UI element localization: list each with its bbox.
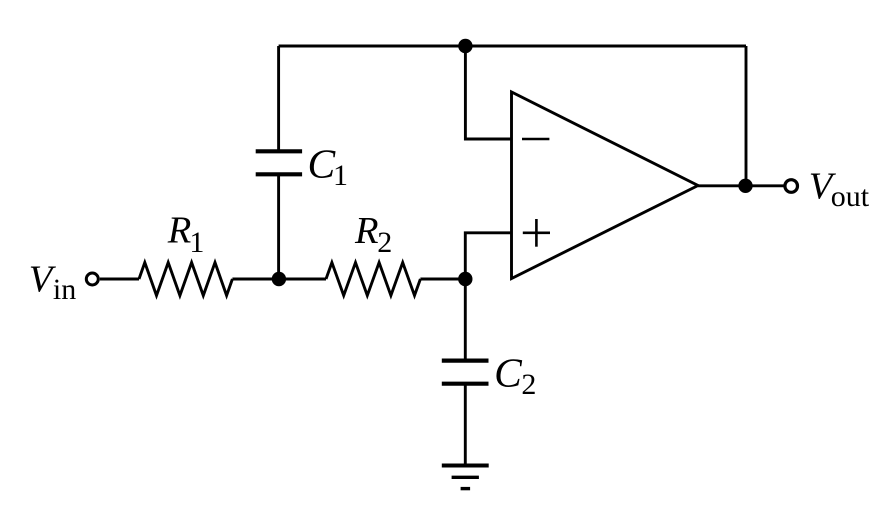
svg-text:C: C	[494, 350, 523, 396]
wire: top feedback rail	[279, 45, 746, 48]
svg-text:R: R	[167, 210, 192, 252]
svg-text:1: 1	[189, 226, 204, 259]
svg-text:out: out	[831, 180, 870, 213]
terminal Vout (open circle)	[785, 180, 798, 193]
wire: node B up to op-amp + input	[465, 233, 511, 279]
wire: C1 top lead (vertical)	[277, 46, 280, 150]
wire: feedback tap down to op-amp - input	[465, 46, 511, 139]
wire: C1 bottom lead to node A	[277, 175, 280, 279]
capacitor C2	[442, 361, 489, 384]
terminal Vin (open circle)	[86, 273, 98, 285]
wire: Vin terminal to R1	[100, 278, 139, 281]
wire: node B down to C2	[464, 279, 467, 359]
junction: feedback rail to - input	[458, 39, 472, 53]
resistor R2	[326, 263, 420, 296]
wire: C2 to ground	[464, 384, 467, 465]
wire: output branch up to feedback rail	[745, 46, 748, 186]
svg-text:2: 2	[377, 226, 392, 259]
svg-text:R: R	[354, 210, 379, 252]
ground	[442, 466, 489, 489]
op-amp U1	[512, 92, 699, 279]
svg-text:1: 1	[333, 159, 348, 192]
node A (R1/R2/C1 junction)	[272, 272, 286, 286]
node B (R2/C2/+input junction)	[458, 272, 472, 286]
capacitor C1	[256, 151, 302, 174]
svg-text:in: in	[53, 273, 76, 306]
wire: op-amp output to Vout terminal	[698, 184, 784, 187]
resistor R1	[139, 263, 232, 296]
op-amp + input symbol	[523, 232, 550, 235]
junction: output node	[738, 179, 752, 193]
wire: R1 to node A to R2	[232, 278, 326, 281]
op-amp - input symbol	[522, 138, 549, 141]
svg-text:2: 2	[521, 368, 536, 401]
wire: R2 to node B	[420, 278, 465, 281]
